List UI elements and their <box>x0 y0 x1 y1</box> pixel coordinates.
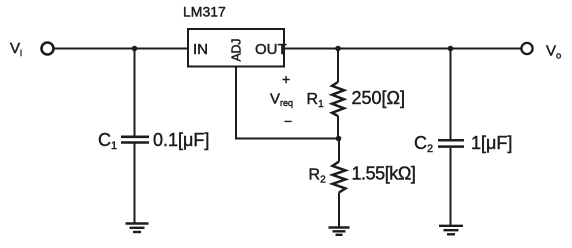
resistor R2 <box>333 162 346 193</box>
ground under C1 <box>126 224 149 233</box>
svg-text:+: + <box>282 71 290 87</box>
capacitor C1 <box>121 137 149 143</box>
node adj junction <box>336 136 342 142</box>
wire R1 to adj node <box>337 116 339 139</box>
ground under R2 <box>329 228 350 235</box>
node input junction <box>132 46 138 52</box>
terminal Vi <box>42 43 54 55</box>
svg-text:ADJ: ADJ <box>230 39 244 62</box>
regulator U1 LM317 body <box>188 29 284 67</box>
terminal Vo <box>521 43 532 54</box>
svg-text:1.55[kΩ]: 1.55[kΩ] <box>352 164 416 184</box>
wire input node to C1 <box>134 49 136 136</box>
svg-text:1[μF]: 1[μF] <box>471 133 512 153</box>
svg-text:LM317: LM317 <box>183 4 226 20</box>
svg-text:−: − <box>284 113 292 129</box>
wire output node to R1 <box>337 49 339 83</box>
wire Vi to IN pin <box>54 48 188 50</box>
wire adj node to R2 <box>338 139 340 162</box>
node C2 top junction <box>448 46 454 52</box>
svg-text:IN: IN <box>193 41 208 58</box>
wire C2 to ground <box>450 148 452 226</box>
wire C2 node to C2 <box>450 49 452 140</box>
wire C1 to ground <box>134 144 136 224</box>
capacitor C2 <box>438 140 464 146</box>
wire OUT pin to Vo <box>284 48 522 50</box>
node output junction (R1 top) <box>335 46 341 52</box>
svg-text:250[Ω]: 250[Ω] <box>352 88 406 108</box>
ground under C2 <box>439 226 463 235</box>
svg-text:0.1[μF]: 0.1[μF] <box>153 130 209 150</box>
wire R2 to ground <box>338 193 340 228</box>
wire ADJ pin to R1-R2 node <box>236 67 338 139</box>
resistor R1 <box>332 82 344 116</box>
svg-text:OUT: OUT <box>255 41 287 58</box>
